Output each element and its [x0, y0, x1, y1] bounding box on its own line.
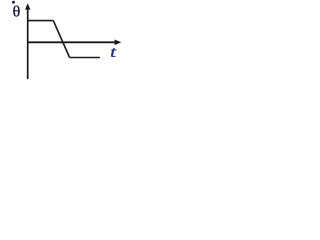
svg-text:θ: θ	[13, 4, 21, 21]
curve: descending slope segment	[53, 21, 69, 58]
dot over theta	[12, 1, 15, 4]
svg-text:t: t	[110, 44, 117, 61]
curve: top horizontal segment	[28, 20, 54, 22]
curve: lower horizontal segment	[70, 57, 100, 59]
horizontal axis (t axis)	[27, 41, 117, 43]
vertical axis arrowhead	[25, 3, 30, 9]
horizontal axis arrowhead	[115, 40, 122, 46]
vertical axis (theta-dot axis)	[27, 6, 29, 79]
